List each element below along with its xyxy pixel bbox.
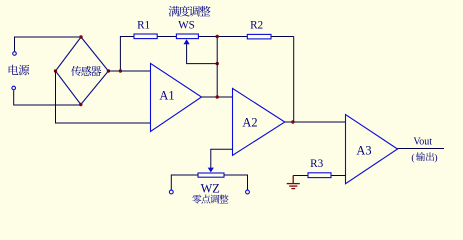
svg-text:(: ( [411, 152, 414, 163]
wire power- to bridge bottom [14, 90, 81, 105]
ground [287, 176, 300, 189]
label 满度调整 (full-scale adjust) [169, 6, 211, 17]
svg-text:Vout: Vout [413, 137, 432, 148]
potentiometer WS wiper arrow [184, 39, 190, 44]
terminal circle power - [12, 86, 16, 90]
wire feedback vertical [216, 37, 218, 98]
label 传感器 (sensor) [71, 66, 101, 76]
label 电源 (power) [9, 65, 30, 76]
label 零点调整 (zero adjust) [192, 195, 228, 204]
svg-text:A1: A1 [159, 89, 174, 103]
svg-text:): ) [434, 152, 437, 163]
potentiometer WZ wiper arrow [208, 168, 214, 173]
wire bridge left to A1 inverting input [56, 71, 151, 123]
wire bridge right to A1 input [108, 70, 150, 72]
svg-text:R2: R2 [250, 19, 263, 31]
op-amp A3 [346, 115, 398, 184]
node feedback top [216, 35, 219, 38]
terminal circle WZ right [246, 190, 250, 194]
resistor R2 [247, 34, 271, 39]
wire top chain [134, 36, 294, 38]
wire A1 output [202, 96, 233, 98]
sensor bridge diamond [56, 37, 109, 105]
wire power+ to bridge top [15, 37, 82, 51]
potentiometer WZ body [198, 173, 224, 177]
resistor R1 [134, 34, 157, 39]
svg-text:A2: A2 [242, 116, 257, 130]
op-amp A1 [151, 63, 202, 131]
node A1 output junction [216, 95, 219, 98]
svg-text:R3: R3 [310, 158, 323, 170]
op-amp A2 [233, 88, 285, 155]
resistor R3 [308, 173, 331, 178]
node bridge bottom [79, 103, 82, 106]
svg-text:R1: R1 [137, 20, 150, 32]
node A2 output junction [291, 120, 294, 123]
svg-text:WS: WS [178, 20, 195, 32]
svg-text:WZ: WZ [201, 181, 220, 195]
wire junction up to R1 chain [120, 37, 134, 72]
node bridge top [79, 35, 82, 38]
terminal circle WZ left [169, 190, 173, 194]
wire A2 output to A3 [285, 121, 346, 123]
potentiometer WS body [176, 34, 198, 39]
node junction bridge-out [119, 69, 122, 72]
wire WZ left lead [171, 175, 198, 190]
label 输出 glyphs [416, 152, 434, 161]
terminal circle power + [13, 52, 17, 56]
wire WS wiper to feedback [187, 44, 218, 64]
node wiper junction [216, 62, 219, 65]
svg-text:A3: A3 [356, 143, 371, 157]
wire WZ right lead [224, 175, 248, 190]
node bridge right [107, 69, 110, 72]
wire ground to R3 to A3 lower input [293, 175, 345, 177]
wire R2 down to A2 output node [293, 37, 295, 123]
wire A3 output Vout [398, 148, 445, 150]
wire A2 lower input from WZ wiper [211, 149, 233, 168]
node bridge left [54, 69, 57, 72]
